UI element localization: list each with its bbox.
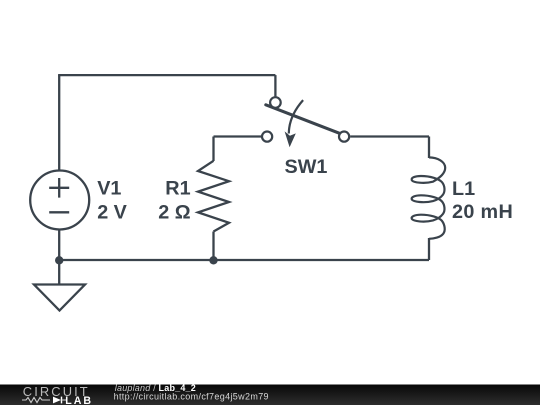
svg-text:http://circuitlab.com/cf7eg4j5: http://circuitlab.com/cf7eg4j5w2m79	[114, 391, 269, 401]
svg-text:20 mH: 20 mH	[452, 201, 513, 223]
svg-text:2 V: 2 V	[97, 202, 127, 224]
wire resistor top horizontal	[214, 135, 262, 137]
wire top rail horizontal	[58, 74, 275, 76]
wire bottom rail	[59, 259, 429, 261]
logo resistor squiggle	[22, 398, 50, 403]
switch SW1 left throw terminal circle	[262, 132, 272, 142]
wire top-left vertical (V1 top to top rail)	[58, 75, 60, 170]
svg-text:R1: R1	[165, 178, 190, 200]
wire switch common drop	[274, 75, 276, 96]
switch SW1 right throw terminal circle	[339, 132, 349, 142]
voltage source V1 circle	[30, 171, 89, 230]
ground	[34, 285, 85, 311]
svg-text:SW1: SW1	[285, 156, 328, 178]
wire V1 bottom	[58, 230, 60, 260]
wire ground stub	[58, 260, 60, 285]
svg-text:LAB: LAB	[65, 395, 93, 405]
svg-text:2 Ω: 2 Ω	[158, 202, 190, 224]
resistor R1	[198, 161, 229, 232]
wire resistor top stub	[212, 137, 214, 162]
svg-text:V1: V1	[97, 178, 121, 200]
node junction at R1 bottom	[209, 256, 217, 264]
svg-text:L1: L1	[452, 178, 475, 200]
switch SW1 actuator arrow	[289, 100, 303, 133]
wire resistor bottom stub	[212, 232, 214, 261]
switch SW1 arrowhead	[285, 131, 296, 147]
node junction at V1 bottom	[55, 256, 63, 264]
V1 plus sign	[49, 178, 69, 198]
logo diode	[53, 397, 61, 404]
V1 minus sign	[49, 211, 69, 213]
wire switch right to inductor	[350, 135, 429, 137]
inductor L1 coil	[412, 157, 446, 238]
switch SW1 common terminal circle	[270, 97, 281, 108]
switch SW1 blade	[266, 105, 340, 134]
footer bar	[0, 385, 540, 405]
wire inductor bottom stub	[428, 238, 430, 260]
wire inductor top stub	[428, 137, 430, 159]
